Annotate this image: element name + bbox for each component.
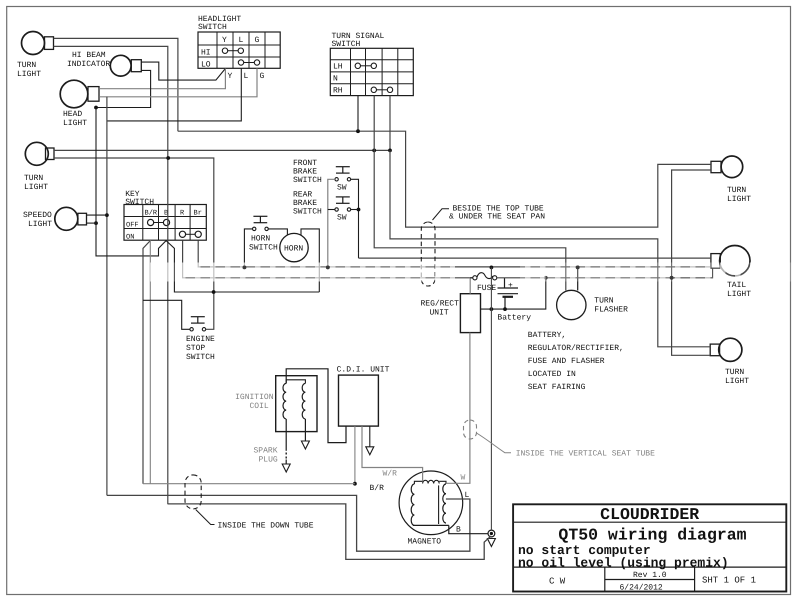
node TS RH pin junction on front-lower wire — [388, 149, 392, 153]
svg-text:LO: LO — [201, 61, 211, 70]
switch table TURN SIGNAL SWITCH — [330, 32, 413, 96]
svg-text:LIGHT: LIGHT — [17, 70, 41, 79]
wire key switch B/R pin diagonal — [143, 241, 150, 484]
svg-text:OFF: OFF — [126, 222, 139, 230]
lamp SPEEDO LIGHT — [55, 207, 78, 230]
lamp HI BEAM INDICATOR — [110, 55, 131, 76]
svg-text:B: B — [456, 526, 461, 535]
wire rear-upper turn light bottom return — [672, 170, 711, 355]
wire ground loop to left trunk — [168, 504, 491, 560]
svg-text:C W: C W — [549, 577, 566, 587]
node rear lights tie on tail bottom wire — [670, 276, 674, 280]
svg-text:SEAT FAIRING: SEAT FAIRING — [528, 383, 586, 392]
wire front brake right contact down — [351, 179, 359, 258]
svg-text:INSIDE THE DOWN TUBE: INSIDE THE DOWN TUBE — [218, 522, 314, 531]
node restamp brake tie — [326, 266, 330, 270]
wire rear brake left contact — [328, 209, 335, 211]
svg-text:SW: SW — [337, 214, 347, 223]
svg-text:SHT 1 OF 1: SHT 1 OF 1 — [702, 576, 756, 586]
svg-text:Y: Y — [228, 72, 233, 81]
svg-text:HEAD: HEAD — [63, 110, 82, 119]
node turn signal LH pin junction — [356, 129, 360, 133]
svg-text:HORN: HORN — [251, 235, 270, 244]
svg-text:& UNDER THE SEAT PAN: & UNDER THE SEAT PAN — [449, 213, 545, 222]
svg-text:LIGHT: LIGHT — [727, 290, 751, 299]
wire left turn bus to rear-upper turn light — [178, 131, 711, 227]
svg-text:UNIT: UNIT — [430, 309, 449, 318]
node CDI B/R junction — [353, 482, 357, 486]
switch ENGINE STOP SWITCH pushbutton — [191, 316, 205, 318]
svg-text:TURN: TURN — [17, 61, 36, 70]
svg-text:LIGHT: LIGHT — [28, 220, 52, 229]
wire CDI W/R pin to magneto — [362, 426, 423, 481]
magneto source coil winding — [411, 484, 414, 525]
svg-text:L: L — [244, 72, 249, 81]
wire horn switch left contact to accessory bus — [244, 229, 253, 268]
node rear brake right contact tie — [357, 208, 361, 212]
svg-text:COIL: COIL — [250, 402, 269, 411]
svg-text:6/24/2012: 6/24/2012 — [620, 584, 663, 593]
ignition coil primary winding — [283, 383, 286, 419]
magneto bottom link — [413, 524, 449, 526]
svg-text:TURN: TURN — [725, 368, 744, 377]
ignition coil secondary winding — [302, 383, 305, 419]
svg-text:L: L — [465, 491, 470, 500]
ground arrow at magneto terminal — [487, 539, 495, 547]
wire fuse left lead — [470, 277, 473, 279]
svg-text:FLASHER: FLASHER — [594, 306, 628, 315]
svg-text:Y: Y — [222, 36, 227, 45]
wire tail light bottom return — [672, 268, 713, 278]
magneto top winding link — [423, 480, 440, 483]
wire headlight common down to key switch B — [96, 108, 166, 256]
wire hi beam indicator to Y terminal — [142, 62, 226, 80]
cable capsule BESIDE THE TOP TUBE — [421, 222, 435, 286]
ignition coil internal top link — [286, 380, 305, 384]
lamp TAIL LIGHT — [720, 246, 750, 276]
horn — [280, 233, 308, 261]
svg-text:W/R: W/R — [383, 470, 398, 479]
wire lighting trunk vertical — [106, 97, 108, 496]
switch FRONT BRAKE SWITCH pushbutton — [336, 166, 350, 168]
magneto lighting coil winding — [443, 484, 446, 523]
svg-text:no oil level (using premix): no oil level (using premix) — [518, 556, 729, 571]
svg-text:REG/RECT: REG/RECT — [421, 300, 460, 309]
svg-text:G: G — [255, 36, 260, 45]
node ground feed junction — [490, 307, 494, 311]
node restamp flasher tie — [576, 266, 580, 270]
svg-text:INDICATOR: INDICATOR — [67, 60, 110, 69]
svg-text:LIGHT: LIGHT — [24, 183, 48, 192]
svg-text:SWITCH: SWITCH — [332, 40, 361, 49]
svg-text:Battery: Battery — [497, 314, 531, 323]
node TS N pin junction on front-lower turn light wire — [372, 149, 376, 153]
svg-text:SWITCH: SWITCH — [249, 244, 278, 253]
lamp TURN LIGHT front-upper — [22, 32, 45, 55]
wire engine stop left contact to B/R — [143, 300, 190, 329]
wire TS switch N pin run to flasher feed bus — [374, 96, 566, 291]
svg-text:L: L — [239, 36, 244, 45]
wire CDI B/R pin down — [354, 426, 356, 484]
leader line seat tube note — [477, 433, 512, 453]
magneto core line — [438, 485, 440, 524]
svg-text:LIGHT: LIGHT — [63, 119, 87, 128]
lamp HEAD LIGHT — [60, 80, 88, 108]
lamp TURN LIGHT rear-lower — [719, 338, 742, 361]
node headlight common junction — [94, 106, 98, 110]
wire key switch R pin to fuse bus — [183, 240, 473, 278]
svg-text:B/R: B/R — [145, 209, 158, 218]
svg-text:TURN: TURN — [24, 174, 43, 183]
wire speedo light top lead — [87, 214, 107, 216]
switch table HEADLIGHT SWITCH — [198, 15, 280, 70]
svg-text:IGNITION: IGNITION — [235, 393, 274, 402]
wire brake bus to tail light top — [359, 257, 711, 259]
lamp TURN LIGHT rear-upper — [721, 156, 743, 178]
wire speedo light bottom lead — [87, 222, 97, 224]
wire ground feed down to terminal — [490, 267, 492, 530]
svg-text:B/R: B/R — [370, 484, 385, 493]
wire Y terminal to headlight top — [99, 69, 225, 89]
ignition coil box — [276, 376, 317, 432]
node speedo light top tie — [105, 213, 109, 217]
svg-text:N: N — [333, 75, 338, 84]
svg-text:CLOUDRIDER: CLOUDRIDER — [600, 505, 699, 524]
svg-text:MAGNETO: MAGNETO — [408, 538, 442, 547]
wire magneto B lead to ground terminal — [449, 525, 488, 533]
wire CDI ground pin — [369, 426, 371, 447]
svg-text:LOCATED IN: LOCATED IN — [528, 370, 576, 379]
wire turn light front-upper top feed to bus — [54, 38, 178, 131]
wire headlight bottom to G terminal — [99, 68, 257, 97]
node restamp tail bottom tie — [670, 276, 674, 280]
fuse F1 — [473, 273, 497, 293]
regulator rectifier unit box — [460, 294, 480, 333]
node restamp horn switch tie — [243, 266, 247, 270]
svg-text:+: + — [508, 282, 513, 291]
wire turn light front-lower bottom to ground trunk — [54, 158, 214, 329]
svg-text:RH: RH — [333, 87, 343, 96]
svg-text:HI: HI — [201, 49, 211, 58]
wire magneto W lead to regrect — [446, 333, 470, 484]
ignition coil ground arrow — [301, 441, 309, 449]
wire accessory bus to turn flasher riser — [577, 267, 579, 290]
wire front brake left contact to common — [328, 179, 335, 267]
leader line down tube note — [196, 510, 215, 525]
svg-text:SWITCH: SWITCH — [186, 353, 215, 362]
svg-text:SW: SW — [337, 184, 347, 193]
wire hi beam indicator bottom jog — [96, 70, 151, 107]
svg-text:W: W — [461, 474, 466, 483]
wire magneto L lead loop to lighting trunk — [107, 495, 470, 551]
node horn switch tie on accessory bus — [243, 266, 247, 270]
CDI ground arrow — [366, 447, 374, 455]
node battery negative riser tie — [544, 276, 548, 280]
svg-text:INSIDE THE VERTICAL SEAT TUBE: INSIDE THE VERTICAL SEAT TUBE — [516, 450, 655, 459]
note battery location — [528, 331, 624, 392]
switch HORN SWITCH pushbutton — [253, 215, 267, 217]
turn flasher — [557, 290, 586, 319]
wire turn light front-lower top to TS switch — [54, 96, 390, 151]
svg-text:LIGHT: LIGHT — [725, 377, 749, 386]
svg-text:HI BEAM: HI BEAM — [72, 51, 106, 60]
node battery negative junction — [503, 307, 507, 311]
cable capsule INSIDE THE DOWN TUBE — [185, 475, 201, 509]
svg-text:BATTERY,: BATTERY, — [528, 331, 566, 340]
switch REAR BRAKE SWITCH pushbutton — [336, 196, 350, 198]
wire turn light front-upper bottom to ground trunk — [54, 46, 168, 504]
svg-text:Br: Br — [194, 210, 202, 218]
svg-text:LIGHT: LIGHT — [727, 195, 751, 204]
lamp TURN LIGHT front-lower — [25, 142, 48, 165]
wire TS switch RH pin to rear-lower turn light — [390, 150, 710, 346]
svg-text:FUSE: FUSE — [477, 284, 496, 293]
CDI unit box — [339, 375, 379, 426]
watermark band — [150, 263, 455, 282]
svg-text:SWITCH: SWITCH — [125, 198, 154, 207]
svg-text:REGULATOR/RECTIFIER,: REGULATOR/RECTIFIER, — [528, 344, 624, 353]
svg-text:C.D.I. UNIT: C.D.I. UNIT — [337, 366, 390, 375]
wire battery right bus segment — [497, 277, 713, 279]
cable capsule INSIDE THE VERTICAL SEAT TUBE — [464, 420, 477, 439]
wire L terminal to lighting trunk — [107, 68, 241, 121]
wire horn switch right contact to horn — [268, 229, 288, 235]
svg-text:SPARK: SPARK — [254, 447, 278, 456]
wire horn right side to horn bus — [301, 229, 319, 292]
svg-text:SWITCH: SWITCH — [293, 176, 322, 185]
wire regrect top lead — [469, 278, 471, 294]
wire key switch B/R pin straight down feed — [149, 240, 151, 484]
node brake common tie on accessory bus — [326, 266, 330, 270]
spark plug lead and gap — [285, 419, 287, 464]
svg-text:FUSE AND FLASHER: FUSE AND FLASHER — [528, 357, 605, 366]
svg-text:Rev 1.0: Rev 1.0 — [633, 571, 667, 580]
node ground feed tie on accessory bus — [490, 266, 494, 270]
wire B/R run to CDI — [143, 483, 355, 485]
battery — [498, 278, 519, 309]
magneto circle — [399, 471, 463, 535]
node engine stop tie on horn bus — [212, 290, 216, 294]
wire rear brake right contact — [351, 209, 359, 211]
svg-text:HORN: HORN — [284, 245, 303, 254]
svg-text:TURN: TURN — [594, 297, 613, 306]
svg-text:G: G — [260, 72, 265, 81]
ignition coil secondary ground lead — [304, 419, 306, 441]
title block — [513, 504, 786, 591]
node speedo light bottom tie — [94, 221, 98, 225]
svg-text:TAIL: TAIL — [727, 281, 746, 290]
magneto winding top risers — [414, 481, 422, 484]
svg-text:ON: ON — [126, 233, 134, 241]
wire battery negative to regrect — [481, 278, 546, 309]
wire TS switch LH pin riser — [357, 96, 359, 132]
svg-text:SPEEDO: SPEEDO — [23, 211, 52, 220]
ground terminal junction bolt — [488, 530, 495, 537]
switch table KEY SWITCH — [124, 190, 206, 241]
node front-lower turn light bottom tie to ground trunk — [166, 156, 170, 160]
spark plug ground arrow — [282, 464, 290, 472]
wire CDI to ignition coil primary — [286, 369, 346, 443]
node turn flasher tie on accessory bus — [576, 266, 580, 270]
leader line top tube note — [433, 209, 450, 220]
svg-text:LH: LH — [333, 63, 343, 72]
svg-text:PLUG: PLUG — [259, 456, 278, 465]
svg-text:ENGINE: ENGINE — [186, 335, 215, 344]
svg-text:QT50 wiring diagram: QT50 wiring diagram — [558, 526, 746, 545]
svg-text:SWITCH: SWITCH — [293, 208, 322, 217]
wire key switch B pin right diagonal to horn bus — [166, 241, 319, 292]
svg-text:SWITCH: SWITCH — [198, 23, 227, 32]
svg-text:STOP: STOP — [186, 344, 205, 353]
wire key switch Br pin to accessory bus — [198, 240, 711, 267]
svg-text:TURN: TURN — [727, 186, 746, 195]
